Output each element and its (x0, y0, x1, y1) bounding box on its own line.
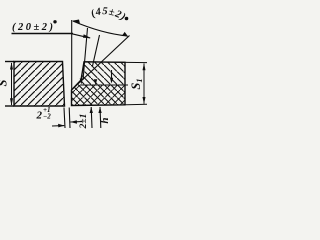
dimension S arrow down (10, 98, 13, 105)
45 arc right arrowhead (122, 32, 128, 37)
label (45±2)° (82, 14, 134, 29)
right plate S1 (72, 62, 148, 106)
dimension 2±1 line (90, 107, 93, 128)
label h (99, 117, 111, 123)
dimension S1 line (143, 64, 145, 104)
dimension S arrow up (10, 62, 13, 69)
svg-text:−2: −2 (43, 112, 51, 120)
label S1 (129, 78, 144, 89)
dimension 2±1 up arrow (90, 107, 93, 113)
gap extension line right (68, 108, 71, 129)
dimension S1 arrow down (143, 97, 146, 104)
svg-text:2: 2 (36, 110, 43, 122)
label 2±1 (79, 114, 89, 130)
svg-text:S: S (0, 79, 10, 86)
dimension S1 arrow up (143, 63, 146, 70)
extra down arrow on shelf (111, 70, 113, 82)
dimension h line (99, 107, 102, 128)
svg-text:h: h (99, 117, 111, 123)
right plate bottom edge extension (125, 103, 147, 106)
20 degree bevel edge extension line (83, 28, 88, 80)
20 degree arrowhead (83, 34, 91, 38)
45 degree dimension arc (73, 21, 128, 36)
right plate top edge extension (84, 61, 147, 64)
leader underline of 20 label (12, 33, 74, 35)
45 degree chamfer extension line (72, 36, 130, 91)
weld root shelf line (80, 84, 128, 86)
20 degree arc segment (72, 34, 90, 38)
gap dimension left arrowhead (58, 124, 64, 128)
left plate bottom edge extension (5, 105, 14, 107)
left plate top edge extension (5, 61, 14, 63)
left plate S (5, 62, 65, 107)
45 arc left arrowhead (72, 20, 80, 24)
second bevel extension line (93, 35, 100, 66)
dimension S line (11, 63, 13, 105)
svg-text:(20±2): (20±2) (12, 22, 53, 33)
dimension 2±1 down arrow at shelf (80, 79, 83, 85)
vertical extension line of root edge (71, 20, 73, 90)
weld root zone crosshatch (72, 85, 126, 106)
gap dimension right arrowhead (70, 120, 77, 124)
degree dot of 45 label (125, 17, 129, 21)
gap extension line left (64, 108, 65, 129)
svg-text:2±1: 2±1 (79, 114, 89, 130)
gap dimension line right part (70, 121, 82, 123)
dimension h down arrow at shelf (94, 79, 97, 85)
dimension h up arrow (98, 107, 101, 113)
gap dimension line left part (52, 125, 64, 127)
